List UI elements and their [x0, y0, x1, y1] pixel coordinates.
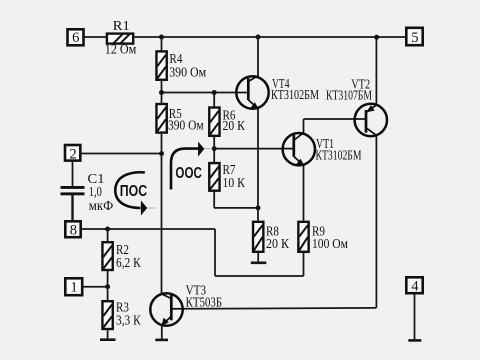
svg-text:R1: R1 [113, 18, 130, 33]
svg-text:6,2 К: 6,2 К [116, 255, 142, 270]
svg-text:1,0: 1,0 [89, 184, 102, 199]
svg-text:КТ3107БМ: КТ3107БМ [326, 88, 372, 103]
svg-text:2: 2 [69, 146, 76, 162]
svg-text:6: 6 [72, 30, 79, 46]
svg-text:КТ503Б: КТ503Б [186, 295, 223, 310]
svg-text:мкФ: мкФ [89, 198, 114, 213]
svg-text:3,3 К: 3,3 К [116, 312, 142, 327]
svg-text:ПОС: ПОС [120, 183, 148, 200]
svg-text:5: 5 [411, 30, 418, 46]
svg-text:ООС: ООС [175, 165, 202, 182]
svg-text:4: 4 [411, 279, 419, 295]
svg-text:1: 1 [70, 280, 77, 296]
svg-text:КТ3102БМ: КТ3102БМ [271, 87, 319, 102]
svg-text:390 Ом: 390 Ом [168, 118, 204, 133]
svg-text:100 Ом: 100 Ом [312, 236, 348, 251]
svg-text:12 Ом: 12 Ом [105, 41, 137, 56]
svg-text:390 Ом: 390 Ом [169, 65, 206, 80]
svg-text:10 К: 10 К [223, 175, 246, 190]
svg-text:20 К: 20 К [223, 118, 246, 133]
svg-text:20 К: 20 К [266, 236, 290, 251]
svg-text:8: 8 [70, 223, 77, 239]
svg-text:КТ3102БМ: КТ3102БМ [316, 148, 362, 163]
